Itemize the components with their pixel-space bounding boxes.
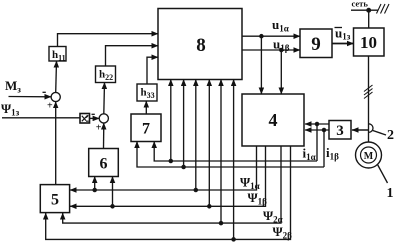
squarer block x2	[80, 114, 90, 124]
block 7	[131, 114, 161, 142]
block h11	[49, 47, 66, 62]
wire i1alpha to block8	[170, 80, 172, 162]
wire Psi1alpha to block6	[94, 177, 96, 191]
block 4	[242, 94, 304, 146]
summing node S2	[99, 114, 108, 123]
wire h22 to block8	[106, 46, 159, 66]
wire S2 to h22	[103, 83, 106, 114]
wire Psi1alpha to block8	[195, 80, 197, 191]
svg-text:+: +	[47, 100, 53, 111]
wire i1beta to block8	[183, 80, 185, 168]
pointer line 1	[378, 165, 388, 184]
wire block3 to block4 i1alpha	[305, 123, 329, 125]
svg-text:10: 10	[360, 33, 377, 52]
wire block3 to block4 i1beta	[305, 129, 329, 131]
wire block7 to h33	[145, 101, 147, 114]
bus Psi2beta	[46, 146, 291, 241]
svg-text:Ψ2β: Ψ2β	[273, 224, 293, 241]
wire i1beta down	[322, 128, 325, 167]
svg-text:Ψ1β: Ψ1β	[248, 190, 268, 207]
current tap hook	[369, 124, 373, 133]
wire block10 to motor	[368, 56, 370, 142]
wire Psi1beta to block8	[208, 80, 210, 207]
bus i1beta to block7	[137, 142, 324, 169]
block 6	[89, 149, 119, 177]
wire Psi2alpha to block8	[220, 80, 222, 224]
svg-text:3: 3	[336, 123, 344, 139]
svg-text:Ψ2α: Ψ2α	[263, 208, 283, 225]
block 5	[40, 185, 69, 213]
svg-text:1: 1	[387, 186, 394, 201]
pointer line 2	[373, 131, 386, 136]
svg-text:+: +	[96, 123, 102, 134]
summing node S1	[51, 92, 60, 101]
wire S1 to h11	[55, 61, 58, 92]
block h22	[96, 66, 116, 83]
svg-text:u1α: u1α	[272, 17, 289, 34]
svg-text:2: 2	[387, 128, 394, 143]
wire Psi1z input	[2, 117, 80, 119]
wire Mz input	[9, 96, 52, 98]
block 10	[354, 28, 385, 56]
svg-text:9: 9	[311, 34, 321, 55]
wire mains to block10	[351, 8, 378, 28]
svg-text:4: 4	[269, 110, 278, 130]
motor M	[356, 142, 382, 168]
sign minus S1	[43, 91, 46, 93]
bus Psi1beta	[70, 146, 266, 208]
block 3	[329, 121, 351, 140]
wire h33 to block8	[147, 57, 158, 84]
wire u1alpha tap to block4	[260, 35, 263, 94]
svg-text:5: 5	[51, 192, 59, 209]
block 8	[158, 9, 242, 80]
wire block5 to S1	[55, 102, 57, 185]
svg-text:h22: h22	[99, 69, 113, 83]
three-phase hatch	[364, 85, 373, 99]
wire Psi1beta to block6	[112, 177, 114, 207]
svg-text:Ψ1з: Ψ1з	[1, 101, 20, 118]
svg-text:6: 6	[100, 156, 108, 173]
svg-text:h11: h11	[52, 49, 66, 63]
bus Psi1alpha	[70, 146, 257, 192]
svg-text:Мз: Мз	[5, 78, 21, 95]
block h33	[137, 84, 157, 101]
wire block6 to S2	[103, 123, 105, 149]
wire u1beta block8 to block9	[242, 49, 300, 51]
svg-text:h33: h33	[141, 87, 155, 101]
svg-text:7: 7	[142, 121, 150, 138]
svg-text:сеть: сеть	[352, 0, 369, 9]
wire u1alpha block8 to block9	[242, 35, 300, 37]
wire Psi2beta to block8	[233, 80, 235, 240]
block 9	[300, 29, 332, 58]
svg-text:8: 8	[196, 35, 206, 56]
wire squarer to S2	[90, 117, 100, 119]
wire i1alpha down	[315, 122, 318, 161]
bus Psi2alpha	[63, 146, 281, 225]
wire block9 to block10	[332, 43, 354, 45]
svg-text:М: М	[364, 151, 374, 162]
svg-text:i1α: i1α	[303, 146, 316, 163]
bus i1alpha to block7	[154, 142, 317, 163]
wire h11 to block8	[58, 34, 159, 47]
wire u1beta tap to block4	[280, 48, 283, 94]
sign minus S2	[92, 113, 95, 115]
wire tap to block3	[352, 129, 369, 131]
mains hatch	[377, 4, 390, 14]
svg-text:i1β: i1β	[326, 145, 339, 162]
